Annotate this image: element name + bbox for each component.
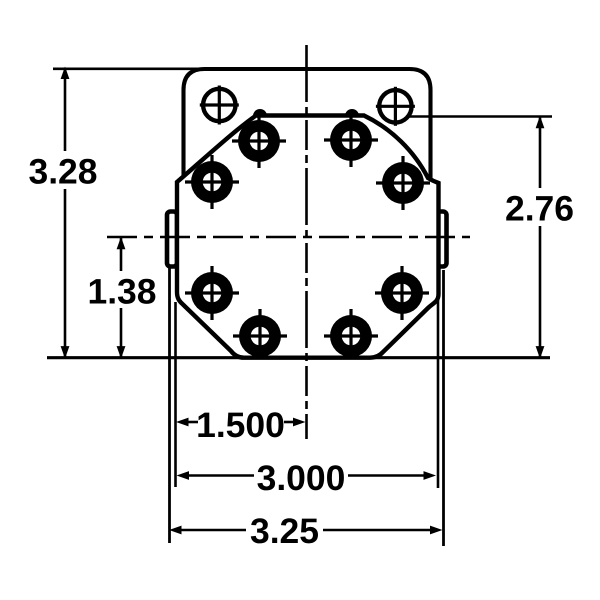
svg-text:1.500: 1.500: [196, 405, 285, 445]
svg-text:2.76: 2.76: [505, 189, 574, 229]
svg-text:3.000: 3.000: [257, 458, 346, 498]
svg-text:3.25: 3.25: [250, 511, 319, 551]
svg-text:3.28: 3.28: [28, 152, 97, 192]
svg-text:1.38: 1.38: [87, 272, 156, 312]
